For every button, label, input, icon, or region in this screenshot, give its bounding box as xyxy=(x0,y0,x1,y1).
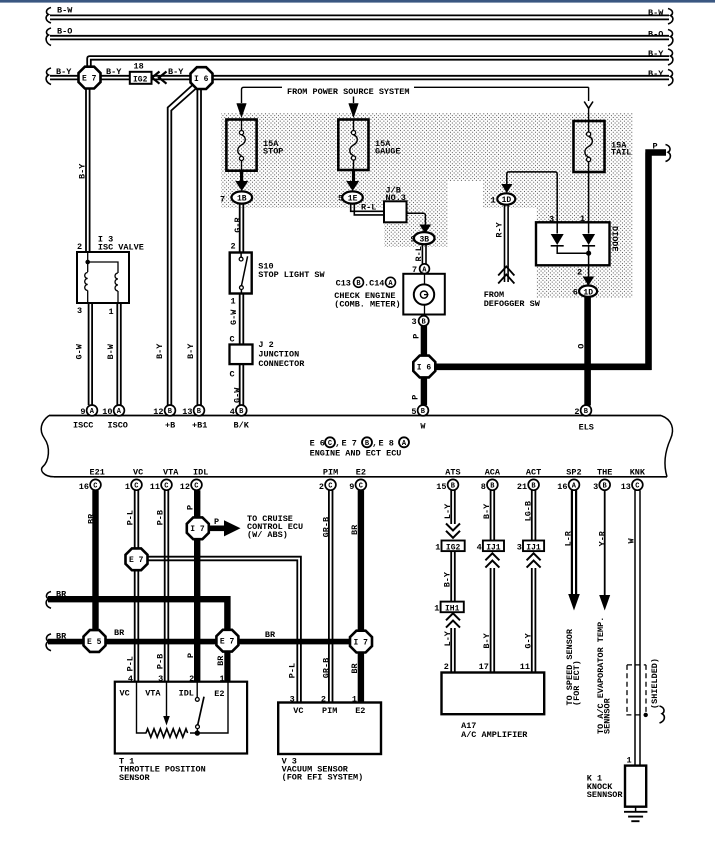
wire P from I6 to ECU pin 5 xyxy=(421,377,427,405)
ECU pin 16 C E21 xyxy=(79,468,105,492)
svg-text:ISCC: ISCC xyxy=(73,420,93,430)
wire P check engine to I6 xyxy=(421,326,427,356)
svg-text:BR: BR xyxy=(350,662,360,673)
ECU pin 8 B ACA xyxy=(481,468,501,492)
svg-text:P-B: P-B xyxy=(156,510,166,525)
svg-text:P-L: P-L xyxy=(287,663,297,678)
wire R-L from 3B to check engine xyxy=(422,245,426,265)
svg-text:9: 9 xyxy=(80,407,85,417)
switch S10 stop light sw xyxy=(230,253,252,294)
ECU pin 21 B ACT xyxy=(517,468,541,492)
wire GR-B PIM to V3 xyxy=(329,490,333,702)
svg-text:6: 6 xyxy=(573,288,578,298)
svg-text:3B: 3B xyxy=(420,235,430,244)
svg-text:17: 17 xyxy=(479,662,489,672)
arrow chevrons out of IJ1 ACT (up) xyxy=(527,553,541,567)
svg-text:CONNECTOR: CONNECTOR xyxy=(258,359,305,369)
wire bus B-W (top) xyxy=(50,15,669,19)
svg-text:2: 2 xyxy=(577,267,582,277)
ECU pin 4 B B/K xyxy=(230,405,250,430)
wire B-Y from E7 down to ISC valve xyxy=(86,88,90,252)
svg-text:GR-B: GR-B xyxy=(322,658,332,678)
wire O thick (ELS) xyxy=(584,297,591,406)
svg-text:1: 1 xyxy=(125,482,130,492)
svg-text:B-Y: B-Y xyxy=(482,632,492,648)
svg-text:1: 1 xyxy=(109,307,114,317)
svg-text:PIM: PIM xyxy=(322,706,337,716)
svg-text:G-Y: G-Y xyxy=(523,632,533,648)
svg-text:B-Y: B-Y xyxy=(106,67,122,77)
svg-text:B-Y: B-Y xyxy=(155,343,165,359)
arrow to speed sensor xyxy=(568,594,580,611)
svg-text:W: W xyxy=(420,421,426,431)
svg-text:SENNSOR: SENNSOR xyxy=(603,697,613,734)
junction connector J2 xyxy=(230,345,253,365)
arrow to evaporator temp sensor xyxy=(599,595,610,611)
wire P-B VTA to T1 xyxy=(165,490,169,682)
svg-text:B-Y: B-Y xyxy=(482,503,492,519)
svg-text:P: P xyxy=(185,505,195,510)
octagon connector E7 (BR junction) xyxy=(216,630,238,652)
svg-text:PIM: PIM xyxy=(323,468,338,478)
svg-text:STOP: STOP xyxy=(263,146,283,156)
svg-text:IJ1: IJ1 xyxy=(486,544,501,553)
wire defogger branch corner to 1D xyxy=(507,172,557,222)
wire +B1 from I6 down to pin 13 xyxy=(197,89,201,405)
svg-text:B-Y: B-Y xyxy=(648,49,664,59)
svg-text:B-O: B-O xyxy=(648,30,663,40)
svg-text:2: 2 xyxy=(231,241,236,251)
arrow into gauge fuse xyxy=(349,104,359,118)
svg-text:FROM POWER SOURCE SYSTEM: FROM POWER SOURCE SYSTEM xyxy=(287,87,409,97)
svg-text:,: , xyxy=(335,438,340,448)
svg-text:P-L: P-L xyxy=(126,510,136,525)
svg-text:16: 16 xyxy=(79,482,89,492)
svg-text:1: 1 xyxy=(434,603,439,613)
svg-text:IH1: IH1 xyxy=(445,605,460,614)
T1 IDL switch xyxy=(196,682,198,698)
svg-text:C: C xyxy=(230,370,235,380)
ECU pin 9 C E2 xyxy=(349,468,366,492)
ECU pin 2 C PIM xyxy=(319,468,338,492)
svg-text:J 2: J 2 xyxy=(258,340,273,350)
component I3 ISC valve box xyxy=(77,252,129,303)
top blue border strip xyxy=(0,0,715,3)
T1 wiper arrow from VTA xyxy=(166,682,168,718)
wire W KNK to knock sensor (shielded pair) xyxy=(635,490,640,765)
wire diode to 1D pin 6 xyxy=(588,265,590,277)
svg-text:P: P xyxy=(411,395,421,400)
svg-text:7: 7 xyxy=(220,195,225,205)
wire B-W ISCO xyxy=(117,303,121,405)
halftone shade region diode xyxy=(536,208,633,298)
fuse 15A TAIL xyxy=(574,121,605,172)
wire B-Y ACA to IJ1 xyxy=(491,490,495,540)
ground symbol xyxy=(624,807,647,822)
svg-text:C: C xyxy=(194,482,198,490)
svg-text:I 7: I 7 xyxy=(190,525,205,534)
connector brace B-W right xyxy=(668,9,673,25)
connector brace B-W left xyxy=(46,8,51,24)
svg-text:12: 12 xyxy=(180,482,190,492)
svg-text:B/K: B/K xyxy=(234,420,250,430)
svg-text:C: C xyxy=(93,482,97,490)
svg-text:4: 4 xyxy=(477,542,482,552)
wire bus B-Y (fourth, through E7 IG2 I6) xyxy=(50,76,669,80)
wire L-Y ATS to IG2 xyxy=(451,490,455,524)
ECU pin 12 C IDL xyxy=(180,468,209,492)
svg-text:R-Y: R-Y xyxy=(494,221,504,237)
svg-text:C: C xyxy=(328,482,332,490)
svg-text:G-W: G-W xyxy=(75,343,85,359)
A/C amplifier A17 box xyxy=(442,673,545,715)
arrow chevrons into IG2 xyxy=(152,72,167,84)
svg-text:SP2: SP2 xyxy=(566,468,581,478)
svg-text:R-L: R-L xyxy=(361,203,376,213)
svg-text:B-Y: B-Y xyxy=(56,67,72,77)
svg-text:ELS: ELS xyxy=(579,422,594,432)
svg-text:BR: BR xyxy=(56,589,67,599)
svg-text:E2: E2 xyxy=(355,706,365,716)
wire P-L VC to T1 xyxy=(135,490,139,682)
svg-text:TAIL: TAIL xyxy=(611,148,631,158)
arrow into tail fuse (open chevron) xyxy=(584,102,593,109)
svg-text:VC: VC xyxy=(293,706,303,716)
fuse 15A GAUGE xyxy=(338,120,368,171)
svg-text:O: O xyxy=(576,344,586,349)
connector brace BR bus2 xyxy=(46,634,51,651)
svg-text:15: 15 xyxy=(436,482,446,492)
wire B-Y IG2 to IH1 xyxy=(451,551,455,602)
connector brace B-O left xyxy=(46,28,51,46)
wire Y-R THE to evaporator temp sensor xyxy=(604,490,606,596)
svg-text:R-L: R-L xyxy=(414,246,424,261)
svg-text:1B: 1B xyxy=(237,195,247,204)
svg-text:9: 9 xyxy=(349,482,354,492)
svg-text:18: 18 xyxy=(134,62,144,72)
wire BR bus 1 from brace to E7 xyxy=(48,596,227,630)
svg-text:E21: E21 xyxy=(90,468,105,478)
svg-text:1: 1 xyxy=(627,756,632,766)
wire BR E2 to V3 xyxy=(358,490,364,702)
svg-text:2: 2 xyxy=(444,662,449,672)
fuse 15A STOP xyxy=(226,120,256,172)
ECU pin 5 B W xyxy=(411,405,428,431)
wire bus B-O xyxy=(50,36,669,40)
svg-text:VTA: VTA xyxy=(145,689,161,699)
svg-text:E 7: E 7 xyxy=(129,556,144,565)
svg-text:G-W: G-W xyxy=(233,387,243,403)
svg-text:KNK: KNK xyxy=(630,468,646,478)
svg-text:B-Y: B-Y xyxy=(648,69,664,79)
arrow into connector 1D pin 1 xyxy=(501,184,512,193)
T1 VC internal wire xyxy=(137,682,147,733)
svg-text:2: 2 xyxy=(574,407,579,417)
shield brace xyxy=(660,706,665,723)
svg-text:B-Y: B-Y xyxy=(78,163,88,179)
arrow into connector 1E xyxy=(346,170,359,191)
wire G-W ISCC xyxy=(89,303,93,405)
octagon connector E7 (top) xyxy=(79,67,101,89)
svg-text:A/C AMPLIFIER: A/C AMPLIFIER xyxy=(461,730,528,740)
ECU pin 3 B THE xyxy=(593,468,612,492)
svg-text:P: P xyxy=(186,653,196,658)
svg-text:E 6: E 6 xyxy=(310,438,325,448)
svg-text:E 8: E 8 xyxy=(379,438,394,448)
svg-text:E2: E2 xyxy=(356,468,366,478)
svg-text:21: 21 xyxy=(517,482,527,492)
octagon connector I6 (top) xyxy=(191,67,213,89)
svg-text:ACT: ACT xyxy=(526,468,541,478)
svg-text:G-W: G-W xyxy=(229,309,239,325)
wire from tail fuse to diode pin 1 xyxy=(588,172,590,222)
svg-text:B-O: B-O xyxy=(57,26,72,36)
ECU band outline xyxy=(41,416,672,477)
vacuum sensor V3 box xyxy=(278,703,381,755)
octagon connector I6 (middle) xyxy=(413,356,435,378)
svg-text:LG-B: LG-B xyxy=(523,501,533,521)
octagon connector E5 xyxy=(84,630,106,652)
svg-text:SENSOR: SENSOR xyxy=(119,773,151,783)
svg-text:(W/ ABS): (W/ ABS) xyxy=(247,530,288,540)
svg-text:VTA: VTA xyxy=(163,468,179,478)
wire G-W below S10 xyxy=(240,294,244,345)
arrow to cruise control ecu xyxy=(209,525,225,531)
svg-text:C: C xyxy=(328,440,332,448)
wire BR E21 to E5 xyxy=(92,490,98,630)
svg-text:I 7: I 7 xyxy=(354,639,369,648)
connector brace B-Y fourth left xyxy=(46,68,51,85)
diode assembly box xyxy=(536,222,610,265)
svg-text:DEFOGGER SW: DEFOGGER SW xyxy=(484,299,541,309)
svg-text:IG2: IG2 xyxy=(446,544,461,553)
svg-text:4: 4 xyxy=(230,407,235,417)
svg-text:B-W: B-W xyxy=(106,343,116,359)
svg-text:+B: +B xyxy=(165,420,175,430)
svg-text:3: 3 xyxy=(517,542,522,552)
wire from J/B no.3 to 3B xyxy=(407,213,426,224)
svg-text:3: 3 xyxy=(593,482,598,492)
svg-text:STOP LIGHT SW: STOP LIGHT SW xyxy=(258,270,325,280)
svg-text:1: 1 xyxy=(491,195,496,205)
svg-text:13: 13 xyxy=(621,482,631,492)
connector brace B-Y fourth right xyxy=(668,70,673,86)
svg-text:I 6: I 6 xyxy=(194,75,209,84)
T1 E2 internal wire xyxy=(190,682,228,733)
knock sensor K1 box xyxy=(625,766,646,807)
svg-text:P: P xyxy=(411,334,421,339)
svg-text:DIODE: DIODE xyxy=(610,226,620,252)
svg-text:1E: 1E xyxy=(348,195,358,204)
svg-text:BR: BR xyxy=(56,632,67,642)
junction block J/B No.3 xyxy=(384,201,407,222)
svg-text:G-R: G-R xyxy=(233,216,243,232)
svg-text:IG2: IG2 xyxy=(133,76,148,85)
svg-text:L-R: L-R xyxy=(564,530,574,546)
svg-text:.C14: .C14 xyxy=(364,278,384,288)
svg-text:E 5: E 5 xyxy=(87,638,102,647)
ECU pin 2 B ELS xyxy=(574,405,594,432)
svg-text:3: 3 xyxy=(412,317,417,327)
svg-text:BR: BR xyxy=(216,655,226,666)
ECU pin 9 A ISCC xyxy=(73,405,97,430)
svg-text:10: 10 xyxy=(102,407,112,417)
svg-text:I 6: I 6 xyxy=(417,363,432,372)
svg-text:C13: C13 xyxy=(336,278,351,288)
svg-text:11: 11 xyxy=(150,482,160,492)
svg-text:1D: 1D xyxy=(502,196,512,205)
svg-text:C: C xyxy=(635,482,639,490)
wire L-Y IH1 to A17 pin 2 xyxy=(451,628,455,673)
arrow into stop fuse xyxy=(237,104,247,118)
ECU pin 11 C VTA xyxy=(150,468,179,492)
svg-text:ACA: ACA xyxy=(485,468,501,478)
connector brace P right xyxy=(666,145,671,162)
svg-text:SENNSOR: SENNSOR xyxy=(587,790,624,800)
arrow chevrons into IG2 (down) xyxy=(446,524,460,538)
wire P IDL to T1 xyxy=(194,490,200,682)
halftone shade region below stop/gauge fuses xyxy=(221,181,448,208)
svg-text:VC: VC xyxy=(120,689,130,699)
svg-text:+B1: +B1 xyxy=(192,420,207,430)
lamp check engine (comb meter) xyxy=(403,274,445,315)
svg-text:B-Y: B-Y xyxy=(168,67,184,77)
wire G-W from J2 to B/K pin xyxy=(240,364,244,405)
ECU pin 16 A SP2 xyxy=(557,468,581,492)
svg-text:THE: THE xyxy=(597,468,612,478)
wire P thick from I6 right and up to brace xyxy=(436,153,667,371)
wire from power source system xyxy=(242,87,589,121)
svg-text:B-Y: B-Y xyxy=(442,571,452,587)
wire R-L from 1E to J/B no.3 xyxy=(351,204,384,215)
svg-text:P-B: P-B xyxy=(155,654,165,669)
svg-text:2: 2 xyxy=(77,242,82,252)
svg-text:1: 1 xyxy=(231,296,236,306)
connector brace BR bus1 xyxy=(46,592,51,609)
wire bus B-Y (third, from E7 corner to right) xyxy=(87,56,669,67)
svg-text:IJ1: IJ1 xyxy=(526,544,541,553)
arrow chevrons out of IJ1 ACA (up) xyxy=(485,553,499,567)
svg-text:P-L: P-L xyxy=(125,656,135,671)
svg-text:(FOR EFI SYSTEM): (FOR EFI SYSTEM) xyxy=(282,772,364,782)
wire P-L branch from E7 to V3 VC xyxy=(148,557,301,703)
ECU pin 10 A ISCO xyxy=(102,405,128,430)
svg-text:B-W: B-W xyxy=(57,6,73,16)
octagon connector E7 (VC branch) xyxy=(125,548,147,570)
svg-text:E 7: E 7 xyxy=(220,638,235,647)
svg-text:E2: E2 xyxy=(214,689,224,699)
wire L-R SP2 to speed sensor xyxy=(572,490,576,595)
diode D2 (right) xyxy=(582,234,595,245)
wire G-R stop light xyxy=(240,204,244,253)
svg-text:,: , xyxy=(372,438,377,448)
svg-text:5: 5 xyxy=(411,407,416,417)
T1 resistor xyxy=(146,729,188,737)
wire continuation marker from defogger xyxy=(498,267,514,284)
svg-text:P: P xyxy=(214,517,219,527)
wire B-Y IJ1 to A17 pin 17 xyxy=(491,568,495,673)
diode D1 (left) xyxy=(551,234,564,245)
svg-text:E 7: E 7 xyxy=(82,75,97,84)
svg-text:JUNCTION: JUNCTION xyxy=(258,349,299,359)
svg-text:16: 16 xyxy=(557,482,567,492)
wire BR from E7 to T1 E2 xyxy=(224,651,230,682)
svg-text:BR: BR xyxy=(350,524,360,535)
shield dashed outline xyxy=(626,665,646,715)
wire G-Y IJ1 to A17 pin 11 xyxy=(532,568,536,673)
halftone shade region fuse row xyxy=(221,113,633,181)
svg-text:1D: 1D xyxy=(583,288,593,297)
svg-text:ISCO: ISCO xyxy=(108,420,128,430)
octagon connector I7 (cruise) xyxy=(187,517,209,539)
svg-text:ATS: ATS xyxy=(445,468,460,478)
svg-text:ENGINE AND ECT ECU: ENGINE AND ECT ECU xyxy=(310,449,402,459)
svg-text:B-W: B-W xyxy=(648,8,664,18)
svg-text:L-Y: L-Y xyxy=(443,630,453,646)
svg-text:2: 2 xyxy=(319,482,324,492)
connector brace B-O right xyxy=(668,30,673,47)
svg-text:11: 11 xyxy=(520,662,530,672)
svg-text:C: C xyxy=(230,335,235,345)
diode output junction xyxy=(557,246,588,265)
wire R-Y from defogger sw xyxy=(505,205,509,282)
svg-text:BR: BR xyxy=(114,628,125,638)
ECU pin 13 B +B1 xyxy=(182,405,207,430)
svg-text:E 7: E 7 xyxy=(342,438,357,448)
halftone shade region J/B no.3 and 3B xyxy=(384,208,448,247)
svg-text:C: C xyxy=(164,482,168,490)
svg-text:(FOR ECT): (FOR ECT) xyxy=(572,660,582,706)
arrow into connector 1B xyxy=(235,171,248,191)
svg-text:W: W xyxy=(626,538,636,544)
svg-text:P: P xyxy=(653,141,658,151)
svg-text:IDL: IDL xyxy=(193,468,208,478)
wire LG-B ACT to IJ1 xyxy=(532,490,536,540)
svg-text:13: 13 xyxy=(182,407,192,417)
wire +B from I6 diagonal down to pin 12 xyxy=(168,86,196,406)
svg-text:L-Y: L-Y xyxy=(443,503,453,519)
arrow chevrons out of IH1 (up) xyxy=(446,613,460,627)
ECU pin 1 C VC xyxy=(125,468,143,492)
octagon connector I7 (E2 junction) xyxy=(350,631,372,653)
connector brace B-Y third right xyxy=(668,49,673,65)
svg-text:VC: VC xyxy=(133,468,143,478)
svg-text:C: C xyxy=(359,482,363,490)
svg-text:BR: BR xyxy=(87,513,97,524)
svg-text:8: 8 xyxy=(481,482,486,492)
svg-text:GAUGE: GAUGE xyxy=(375,146,401,156)
svg-text:C: C xyxy=(134,482,138,490)
halftone shade region 1D connector xyxy=(483,181,633,208)
arrow into connector 1D pin 6 xyxy=(583,277,595,286)
throttle position sensor T1 box xyxy=(115,682,247,754)
svg-text:(SHIELDED): (SHIELDED) xyxy=(650,658,660,709)
svg-text:GR-B: GR-B xyxy=(322,517,332,537)
svg-text:B-Y: B-Y xyxy=(186,343,196,359)
wire BR bus 2 from brace to I7 xyxy=(48,639,361,645)
shield junction dot xyxy=(644,713,648,717)
svg-text:3: 3 xyxy=(77,306,82,316)
svg-text:IDL: IDL xyxy=(179,689,194,699)
svg-text:BR: BR xyxy=(265,630,276,640)
ECU pin 15 B ATS xyxy=(436,468,460,492)
svg-text:12: 12 xyxy=(153,407,163,417)
svg-text:1: 1 xyxy=(435,542,440,552)
arrow into connector 3B xyxy=(419,225,431,234)
svg-text:(COMB. METER): (COMB. METER) xyxy=(334,299,400,309)
svg-text:Y-R: Y-R xyxy=(598,530,608,546)
ECU pin 12 B +B xyxy=(153,405,175,430)
